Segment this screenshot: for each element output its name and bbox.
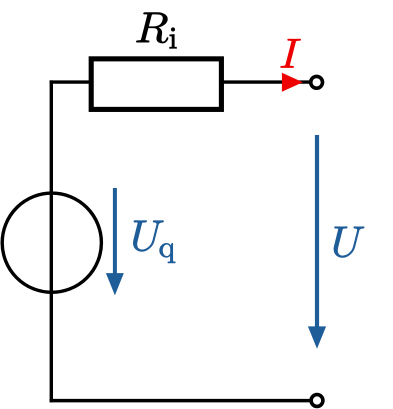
current arrow I [282, 73, 303, 92]
voltage arrow Uq [113, 188, 117, 276]
label U [334, 227, 364, 258]
label Ri (R) [136, 13, 168, 43]
label Uq (U) [133, 221, 163, 252]
voltage source U1 [2, 193, 101, 292]
terminal top right [311, 76, 323, 88]
wire left vertical [50, 80, 53, 402]
resistor Ri [91, 59, 221, 110]
voltage arrow U [315, 135, 319, 329]
wire top horizontal [50, 80, 310, 83]
wire bottom horizontal [50, 399, 310, 403]
label Uq (q subscript) [160, 243, 175, 262]
label Ri (i subscript) [170, 28, 177, 48]
terminal bottom right [311, 395, 323, 407]
label I [281, 39, 301, 67]
